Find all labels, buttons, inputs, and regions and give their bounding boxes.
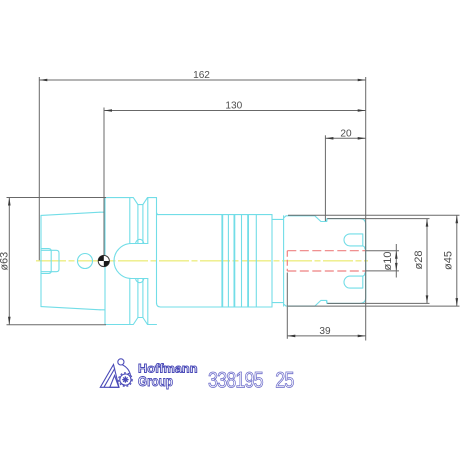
svg-text:130: 130	[225, 101, 242, 112]
arrow dia63 top	[8, 198, 11, 206]
orientation slot edge left bottom	[137, 279, 139, 318]
taper-to-flange connector top	[100, 211, 105, 213]
nut groove wall	[326, 219, 328, 222]
Hoffmann Group logo icon	[100, 359, 132, 388]
svg-text:ø63: ø63	[0, 252, 11, 271]
nut slot top	[344, 234, 365, 249]
orientation slot edge right bottom	[142, 279, 144, 318]
dimension line 20	[325, 137, 365, 139]
nut front section outline	[327, 219, 365, 304]
taper-to-flange connector bottom	[100, 309, 105, 311]
dimension line 162	[39, 79, 365, 81]
dia63 extension top	[7, 197, 107, 199]
flange rear fillet	[157, 303, 161, 307]
arrow dia45 bottom	[456, 298, 459, 306]
clamp ring line 2	[227, 215, 229, 307]
undercut top	[272, 218, 284, 220]
slot cap top	[130, 243, 148, 245]
dimension line dia63	[8, 198, 10, 325]
flange top surface	[105, 198, 157, 205]
nut cone top edge	[284, 216, 328, 222]
arrow 130 left	[104, 109, 112, 112]
svg-text:39: 39	[319, 326, 331, 337]
centerline (axis)	[36, 260, 368, 262]
nut groove wall bottom	[326, 300, 328, 303]
body bottom edge	[161, 306, 273, 308]
arrow 20 right	[358, 137, 366, 140]
arrow 39 right	[358, 335, 366, 338]
bore hidden line left	[286, 251, 288, 271]
bore hidden line bottom	[287, 270, 365, 272]
part number 338195 25	[208, 369, 294, 393]
HSK taper left face	[40, 215, 42, 306]
dia45 extension top	[288, 214, 460, 216]
flange rear face	[156, 198, 158, 304]
svg-text:338195: 338195	[208, 369, 263, 393]
slot bump bottom	[136, 279, 144, 283]
orientation slot edge right top	[142, 205, 144, 244]
svg-text:ø45: ø45	[443, 251, 455, 270]
body step edge	[255, 215, 257, 307]
flange groove wall right bottom	[147, 279, 149, 325]
arrow 162 right	[358, 79, 366, 82]
dia10 extension top	[366, 250, 399, 252]
clamp ring line 1	[221, 215, 223, 307]
nut cone bottom edge	[284, 300, 328, 306]
extension line 20 left	[324, 135, 326, 221]
slot bump top	[136, 239, 144, 243]
body top fillet	[157, 212, 159, 214]
orientation slot edge left top	[137, 205, 139, 244]
taper top edge	[41, 212, 100, 215]
arrow dia63 bottom	[8, 317, 11, 325]
shank notch inner profile	[41, 250, 59, 271]
arrow 130 right	[358, 109, 366, 112]
flange groove wall left	[129, 198, 131, 244]
taper bottom edge	[41, 307, 100, 310]
flange front face	[104, 198, 106, 325]
slot bottom arc	[114, 244, 132, 279]
body top edge	[157, 214, 272, 216]
body rear face	[271, 215, 273, 307]
svg-text:25: 25	[275, 369, 294, 393]
clamp ring line 3	[233, 215, 235, 307]
extension line 39 left	[286, 273, 288, 339]
dimension line dia28	[426, 219, 428, 304]
extension line right common	[365, 77, 367, 341]
flange bottom surface	[105, 318, 157, 325]
svg-text:162: 162	[193, 70, 210, 81]
dia28 extension bottom	[327, 302, 429, 304]
clamp ring line 5	[247, 215, 249, 307]
arrow dia10 top	[395, 251, 398, 259]
arrow dia45 top	[456, 215, 459, 223]
svg-text:20: 20	[340, 129, 352, 140]
dimension line 39	[287, 335, 365, 337]
dimension line dia45	[456, 215, 458, 306]
nut slot bottom	[344, 273, 365, 288]
svg-text:ø10: ø10	[382, 252, 394, 271]
arrow 162 left	[39, 79, 47, 82]
dimension line dia10	[395, 244, 397, 278]
nut left face	[283, 216, 285, 306]
datum symbol	[98, 255, 109, 266]
arrow 20 left	[325, 137, 333, 140]
slot cap bottom	[130, 278, 148, 280]
dia63 extension bottom	[7, 324, 107, 326]
arrow 39 left	[287, 335, 295, 338]
arrow dia28 top	[426, 219, 429, 227]
shank notch outer profile	[41, 249, 51, 274]
bore hidden line top	[287, 250, 365, 252]
arrow dia10 bottom	[395, 263, 398, 271]
flange groove wall left bottom	[129, 279, 131, 325]
undercut bottom	[272, 302, 284, 304]
arrow dia28 bottom	[426, 295, 429, 303]
flange groove wall right	[147, 198, 149, 244]
clamp ring line 4	[241, 215, 243, 307]
dia28 extension top	[327, 218, 429, 220]
svg-text:ø28: ø28	[413, 251, 425, 270]
dimension line 130	[104, 110, 366, 112]
dia10 extension bottom	[366, 270, 399, 272]
svg-text:Group: Group	[138, 373, 173, 389]
dia45 extension bottom	[288, 305, 460, 307]
drive slot hole	[78, 254, 93, 269]
logo gear star	[122, 376, 128, 382]
extension line 130 left	[103, 108, 105, 256]
extension line 162 left	[38, 77, 40, 260]
